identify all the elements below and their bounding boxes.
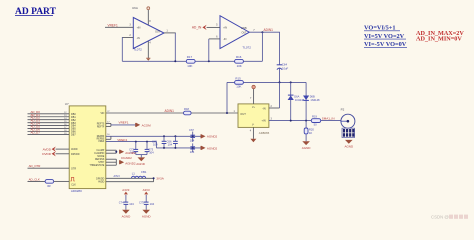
net label AD_D7	[31, 130, 41, 134]
resistor R21	[45, 180, 54, 188]
junction C73 top	[146, 141, 148, 143]
resistor R20	[304, 127, 314, 135]
svg-text:P2: P2	[341, 107, 345, 111]
svg-text:DVDD: DVDD	[42, 152, 52, 156]
wire REFSNS stub	[106, 161, 117, 163]
wire U6B out feedback vertical	[261, 32, 263, 61]
wire REFTF stub	[106, 125, 111, 127]
power port DVDD	[42, 151, 56, 156]
svg-text:AGND2: AGND2	[207, 135, 218, 139]
wire U6A -IN feedback vertical	[121, 37, 123, 61]
net label AD_D6	[31, 128, 41, 132]
junction C67	[192, 135, 194, 137]
capacitor C67	[189, 128, 195, 142]
power port arrow clamp	[119, 150, 136, 156]
svg-text:1N4148: 1N4148	[295, 98, 305, 102]
svg-text:R20: R20	[309, 127, 314, 131]
svg-text:L1: L1	[132, 172, 136, 176]
svg-text:C74: C74	[119, 200, 124, 204]
capacitor C65	[152, 136, 166, 148]
capacitor C73	[145, 142, 155, 155]
wire U6A +IN	[105, 26, 133, 28]
wire output down to cap	[279, 32, 281, 64]
wire U6A output	[164, 32, 176, 34]
wire feedback rail	[122, 60, 262, 62]
svg-text:R18: R18	[184, 107, 189, 111]
wire rail down to VIN line	[226, 82, 228, 113]
watermark CSDN	[431, 214, 468, 219]
wire cap to rail	[279, 68, 281, 82]
svg-text:AD9280: AD9280	[71, 189, 82, 193]
junction C66 bot	[174, 147, 176, 149]
wire STBY stub	[106, 164, 117, 166]
junction clamp	[115, 151, 117, 153]
svg-text:-IN: -IN	[137, 37, 140, 40]
svg-text:U6B: U6B	[241, 26, 247, 30]
power port arrow VREF	[201, 146, 218, 151]
junction C65 bot	[163, 147, 165, 149]
wire CLAMP stub	[106, 149, 117, 151]
port AD_IN at U6B	[192, 25, 207, 30]
junction 3v3	[153, 177, 155, 179]
power flag C75	[143, 188, 150, 194]
net label 3V3A	[156, 177, 165, 181]
svg-text:REFTF: REFTF	[97, 126, 105, 128]
svg-text:AGND: AGND	[302, 146, 312, 150]
wire U6B output	[249, 31, 280, 33]
svg-text:10K: 10K	[237, 64, 242, 68]
resistor R18	[184, 107, 192, 115]
junction U6B inv-rail	[208, 60, 210, 62]
junction VIN tee	[226, 112, 228, 114]
svg-text:50: 50	[314, 122, 317, 126]
wire R15 rail	[227, 81, 306, 83]
svg-text:AVDD: AVDD	[71, 148, 78, 151]
svg-text:AD_OTR: AD_OTR	[29, 164, 41, 168]
svg-text:1K: 1K	[309, 131, 312, 135]
svg-text:104: 104	[153, 143, 158, 147]
wire DRVDD right	[106, 177, 154, 179]
junction rail-D6A	[290, 81, 292, 83]
note AD_IN_MAX=2V	[416, 30, 464, 37]
svg-text:REFTS: REFTS	[97, 123, 105, 125]
svg-text:U7: U7	[65, 102, 69, 106]
svg-text:-IN: -IN	[223, 38, 226, 41]
wire mode tie	[115, 159, 117, 165]
svg-text:104: 104	[129, 202, 134, 206]
svg-text:AGND2: AGND2	[207, 146, 218, 150]
svg-text:D6A: D6A	[294, 94, 299, 98]
wire VREF jog	[106, 142, 201, 148]
note VI=-5V VO=0V	[364, 41, 407, 48]
wire U6A -IN	[122, 37, 133, 39]
op-amp U6B	[216, 16, 255, 50]
svg-text:DGND2: DGND2	[121, 156, 132, 160]
pin number DB0	[64, 112, 67, 114]
clock glyph U7 CLK	[70, 177, 75, 181]
ground AGND P2	[344, 140, 354, 149]
resistor R19	[311, 115, 320, 127]
svg-text:VI=5V VO=2V: VI=5V VO=2V	[364, 33, 405, 40]
wire MODE stub	[106, 158, 117, 160]
svg-text:DRVDD: DRVDD	[96, 178, 104, 180]
diode D6A	[288, 94, 305, 102]
value 3v3 near box	[114, 175, 121, 178]
wire REFBF rail	[106, 135, 201, 137]
power port arrow REFT	[135, 123, 151, 128]
svg-text:10K: 10K	[187, 64, 192, 68]
note AD_IN_MIN=0V	[416, 36, 462, 43]
svg-text:OUT: OUT	[155, 30, 161, 33]
wire DB6	[28, 131, 70, 133]
wire U8 -IN vertical	[279, 82, 281, 108]
junction rail-cap	[279, 81, 281, 83]
svg-text:FB1: FB1	[141, 170, 147, 174]
power port AVDD	[43, 147, 56, 152]
svg-text:AD_CLK: AD_CLK	[29, 177, 40, 181]
pin number DB6	[64, 130, 67, 132]
svg-text:ACOM: ACOM	[142, 123, 152, 127]
svg-text:0R: 0R	[47, 184, 50, 188]
wire AVDD right	[106, 178, 154, 181]
wire REFBS stub	[106, 136, 111, 139]
ADC U7 AD9280	[65, 102, 111, 193]
svg-text:A3V3: A3V3	[143, 188, 150, 192]
svg-text:VREF: VREF	[98, 141, 105, 143]
junction U6B out	[261, 31, 263, 33]
svg-text:THREESTATE: THREESTATE	[89, 164, 104, 167]
svg-text:+IN: +IN	[223, 26, 227, 29]
ground AGND R20	[302, 141, 312, 150]
wire DB7	[28, 133, 70, 135]
svg-text:DRVDD: DRVDD	[71, 153, 80, 156]
wire R20 vertical	[305, 121, 307, 128]
wire D6A vertical	[290, 82, 292, 120]
svg-text:U6A: U6A	[132, 6, 138, 10]
net label SMA1_IN	[322, 117, 335, 121]
svg-text:ADIN1: ADIN1	[264, 28, 274, 32]
wire CLK right	[54, 180, 69, 182]
power pin U8	[252, 85, 255, 104]
note VI=5V VO=2V	[364, 33, 406, 40]
ground AGND caps	[136, 157, 146, 165]
net label AD_D5	[31, 125, 41, 129]
wire OTR	[28, 167, 70, 169]
wire U6A output down	[174, 33, 176, 61]
svg-text:1N4148: 1N4148	[310, 98, 320, 102]
svg-text:AD_IN_MIN=0V: AD_IN_MIN=0V	[416, 36, 462, 43]
wire signal to SMA	[269, 120, 341, 122]
junction C65 top	[163, 135, 165, 137]
svg-text:TL072: TL072	[133, 48, 142, 52]
svg-text:TL072: TL072	[242, 46, 251, 50]
svg-text:CSDN @: CSDN @	[431, 214, 449, 219]
wire C72 C73 tie	[136, 155, 147, 158]
net label AD_OTR	[29, 164, 41, 168]
svg-text:OTR: OTR	[71, 167, 76, 170]
svg-text:AD_D7: AD_D7	[31, 130, 41, 134]
svg-text:AD_IN: AD_IN	[192, 26, 202, 30]
inductor L1	[132, 170, 147, 179]
wire R20 to gnd	[305, 135, 307, 142]
net label VREF2	[117, 138, 127, 142]
svg-text:AD8065: AD8065	[259, 131, 270, 135]
svg-text:CLAMP: CLAMP	[96, 149, 104, 152]
power V+ pin U6A	[147, 7, 150, 25]
ground V- pin U6A	[146, 41, 150, 61]
wire U6B +IN	[207, 26, 220, 28]
net label AD_D0	[31, 110, 41, 114]
svg-text:AGND: AGND	[122, 214, 132, 218]
wire DB5	[28, 128, 70, 130]
svg-text:SMA1_IN: SMA1_IN	[322, 117, 335, 121]
resistor R16	[235, 55, 244, 68]
net label AD_CLK	[29, 177, 40, 181]
svg-text:104: 104	[190, 138, 195, 142]
svg-text:3V3A: 3V3A	[156, 177, 165, 181]
svg-text:104: 104	[150, 202, 155, 206]
power port arrow REFBF	[201, 134, 218, 139]
wire clamp tie	[115, 150, 117, 153]
wire U6B -IN vertical	[208, 39, 210, 61]
svg-text:VIN: VIN	[100, 113, 104, 115]
capacitor C64	[277, 62, 289, 70]
connector P2 footprint pads	[342, 128, 355, 137]
ground AGND C74	[122, 210, 132, 219]
svg-text:104: 104	[168, 143, 173, 147]
wire DB1	[28, 116, 70, 118]
svg-text:DB7: DB7	[71, 134, 76, 137]
op-amp U6A	[129, 6, 168, 52]
svg-text:AVDD: AVDD	[43, 147, 52, 151]
svg-text:A3V3: A3V3	[122, 188, 129, 192]
svg-text:V-: V-	[252, 124, 254, 126]
wire DB3	[28, 122, 70, 124]
junction U6A out-rail	[174, 60, 176, 62]
svg-text:ADIN1: ADIN1	[165, 109, 175, 113]
svg-text:MODE: MODE	[97, 156, 104, 158]
svg-text:AGND: AGND	[142, 214, 152, 218]
junction C72 top	[135, 141, 137, 143]
pin number DB5	[64, 127, 67, 129]
svg-text:AGND: AGND	[136, 162, 146, 166]
pin number DB7	[64, 133, 67, 135]
power flag C74	[122, 188, 129, 194]
net label VREF1 ref	[119, 121, 129, 125]
svg-text:R19: R19	[312, 115, 317, 119]
svg-text:+IN: +IN	[137, 27, 141, 30]
net label ADIN1	[264, 28, 274, 32]
svg-text:C75: C75	[139, 200, 144, 204]
power port arrow mode	[119, 160, 136, 166]
svg-text:AGND2: AGND2	[125, 151, 136, 155]
capacitor C72	[129, 142, 138, 155]
resistor R17	[186, 55, 195, 68]
svg-text:R16: R16	[236, 55, 242, 59]
junction C68	[192, 147, 194, 149]
net label AD_D1	[31, 113, 41, 117]
junction signal-D6A	[290, 120, 292, 122]
svg-text:CLK: CLK	[71, 184, 76, 187]
svg-text:STBY: STBY	[98, 162, 104, 164]
connector P2 SMA	[341, 107, 355, 128]
pin number DB2	[64, 118, 67, 120]
wire U6B -IN	[209, 38, 220, 40]
svg-text:VREF1: VREF1	[119, 121, 129, 125]
wire DB4	[28, 125, 70, 127]
svg-text:REFSNS: REFSNS	[95, 159, 105, 161]
svg-text:104: 104	[190, 150, 195, 154]
svg-text:-IN: -IN	[262, 106, 266, 110]
wire CLK left	[28, 180, 46, 182]
capacitor C68	[190, 143, 195, 154]
svg-text:C67: C67	[189, 128, 194, 132]
net label AD_D3	[31, 119, 41, 123]
capacitor C66	[167, 136, 178, 148]
svg-text:AGND: AGND	[344, 145, 354, 149]
svg-text:VI=-5V VO=0V: VI=-5V VO=0V	[364, 41, 407, 48]
op-amp U8 AD8065	[234, 97, 273, 135]
note formula VO=VI/5+1	[364, 25, 400, 32]
svg-text:10K: 10K	[236, 85, 241, 89]
pin number DB3	[64, 121, 67, 123]
junction C66 top	[174, 135, 176, 137]
net label VREF1 at U6A +IN	[108, 24, 119, 28]
svg-text:104: 104	[149, 151, 154, 155]
diode D6B	[303, 94, 320, 102]
wire DRVDD	[56, 153, 70, 155]
wire AVDD	[56, 148, 70, 150]
wire REFTS stub	[106, 122, 111, 124]
title AD PART	[15, 7, 57, 17]
pin number DB4	[64, 124, 67, 126]
wire D6B vertical	[305, 82, 307, 120]
wire U7 VIN to U8	[106, 112, 238, 114]
junction signal-D6B	[305, 120, 307, 122]
svg-text:+IN: +IN	[261, 119, 265, 123]
wire DB0	[28, 113, 70, 115]
resistor R15	[235, 77, 244, 89]
svg-text:OUT: OUT	[241, 31, 247, 34]
net label AD_D4	[31, 122, 41, 126]
svg-text:VO=VI/5+1: VO=VI/5+1	[364, 25, 396, 32]
pin number DB1	[64, 115, 67, 117]
svg-text:R15: R15	[235, 77, 241, 81]
svg-text:AVDD: AVDD	[98, 181, 105, 184]
capacitor C75	[139, 195, 155, 210]
wire CLAMPIN stub	[106, 152, 117, 154]
wire U8 -IN stub	[269, 107, 280, 109]
svg-text:AGND2: AGND2	[125, 162, 136, 166]
svg-text:D6B: D6B	[310, 94, 315, 98]
svg-text:OUT: OUT	[240, 112, 246, 116]
wire DB2	[28, 119, 70, 121]
ground AGND C75	[142, 210, 152, 219]
capacitor C74	[119, 195, 135, 210]
net label ADIN2	[165, 109, 175, 113]
net label DGND2	[121, 156, 132, 160]
svg-text:A3V3: A3V3	[114, 175, 121, 178]
ground pin U8	[250, 127, 256, 142]
svg-text:10uF: 10uF	[282, 66, 289, 70]
net label AD_D2	[31, 116, 41, 120]
wire REFTS tie	[111, 123, 136, 126]
svg-text:CLAMPIN: CLAMPIN	[94, 152, 105, 155]
svg-text:R17: R17	[187, 55, 193, 59]
